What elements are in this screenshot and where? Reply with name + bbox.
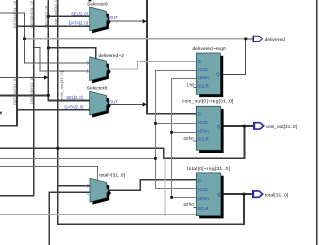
multiplexer total~[31..0] bbox=[87, 173, 126, 205]
wire: delivered~2 select from B3 dot y=47.9 over to x=95.7 down into mux top bbox=[48, 48, 95, 60]
wire: Selector9 OUT y=21.2 into bus B5 with arrowhead bbox=[108, 19, 147, 23]
svg-text:OUT: OUT bbox=[109, 15, 118, 20]
svg-text:delivered: delivered bbox=[265, 37, 286, 43]
svg-text:SCLR: SCLR bbox=[197, 137, 208, 142]
bus label vertical B4 lower right side bbox=[59, 71, 64, 99]
svg-text:DATA[a][31..0]: DATA[a][31..0] bbox=[12, 77, 17, 105]
svg-text:coin_out[31..0]: coin_out[31..0] bbox=[53, 0, 58, 27]
wire: SCLR stub coin reg bbox=[193, 140, 196, 142]
wire: total~ mux lower input y=192.2 from vertical x=49.3 going off bottom bbox=[49, 192, 90, 245]
svg-text:OUT: OUT bbox=[109, 100, 118, 105]
svg-text:SEL[2..0]: SEL[2..0] bbox=[71, 12, 88, 17]
node: junction B3/SEL9 bbox=[47, 15, 50, 18]
bus label vertical B1 top bbox=[12, 1, 17, 29]
svg-text:SCLR: SCLR bbox=[197, 84, 208, 89]
wire: Selector8 DATA bus y=109.7 from left edge bbox=[17, 109, 91, 111]
multiplexer delivered~2 bbox=[87, 53, 125, 83]
wire: Selector9 DATA bus y=26.1 from B1 bbox=[17, 25, 91, 27]
wire: SCLR stub delivered reg bbox=[193, 87, 196, 89]
node: junction B3 left branch bbox=[47, 94, 50, 97]
node: junction ena total bbox=[170, 196, 173, 199]
svg-text:>CLK: >CLK bbox=[197, 67, 208, 72]
svg-text:32'h0: 32'h0 bbox=[183, 202, 194, 207]
node: junction delivered feedback x=24.4 bbox=[23, 37, 26, 40]
output port coin_out[31..0] bbox=[253, 122, 298, 130]
wire: coin_out feedback thick y=148.6 stepping down to y=158.3 right to x=244.4 up to coin port dot bbox=[0, 126, 244, 158]
bus label vertical B3 top bbox=[44, 6, 49, 29]
svg-text:◇ENA: ◇ENA bbox=[197, 196, 209, 201]
wire: total~ mux output thick to total reg D bbox=[108, 180, 197, 190]
cropped text fragment at left edge bbox=[0, 112, 2, 115]
wire: coin reg Q to port y=126 bbox=[221, 125, 254, 127]
register delivered~reg0 bbox=[186, 46, 226, 97]
output port delivered bbox=[253, 36, 286, 43]
wire: delivered feedback top-left y=12.9 via vertical x=24.4 to delivered~2 input0 y=62.8 bbox=[0, 13, 91, 63]
wire: Selector8 OUT y=104.4 into bus B5 with arrowhead bbox=[108, 102, 147, 106]
svg-text:coin_out[0]~reg[31..0]: coin_out[0]~reg[31..0] bbox=[182, 99, 234, 105]
multiplexer Selector8 bbox=[64, 86, 118, 118]
node: junction delivered port bbox=[244, 38, 247, 41]
wire: SCLR stub total reg bbox=[193, 206, 196, 208]
svg-text:delivered~reg0: delivered~reg0 bbox=[193, 46, 226, 52]
wire: delivered~2 output gray to delivered reg D bbox=[108, 62, 197, 69]
wire: total reg Q to port and feedback down bbox=[221, 194, 253, 224]
output port total[31..0] bbox=[252, 190, 289, 198]
svg-text:DATA[b][31..0]: DATA[b][31..0] bbox=[29, 76, 34, 104]
svg-text:total~[31..0]: total~[31..0] bbox=[99, 173, 125, 179]
multiplexer Selector9 bbox=[69, 2, 118, 34]
svg-text:D: D bbox=[198, 112, 201, 117]
svg-text:DATA[a][31..0]: DATA[a][31..0] bbox=[12, 1, 17, 29]
wire: right edge vertical x=316.8 bbox=[316, 0, 318, 245]
svg-text:total[31..0]: total[31..0] bbox=[265, 192, 289, 198]
svg-text:D: D bbox=[198, 59, 201, 64]
wire: bus B1 vertical x=17 with corner left at y=126.4 bbox=[0, 0, 17, 126]
svg-text:◇ENA: ◇ENA bbox=[197, 75, 209, 80]
wire: bus B2 vertical x=33.8 with corner left at y=196.4 bbox=[0, 0, 34, 196]
wire: bus B3 vertical x=48.3 ending corner right into Selector8 SEL bbox=[48, 0, 90, 100]
node: junction B3/delivered~2 sel bbox=[47, 47, 50, 50]
svg-text:coin_out[31..0]: coin_out[31..0] bbox=[59, 71, 64, 99]
bus label vertical B2 lower bbox=[29, 76, 34, 104]
cropped mark at top edge bbox=[89, 0, 92, 1]
wire: bus B4 vertical x=57.8 down to total feedback corner bbox=[58, 0, 245, 224]
svg-text:Selector9: Selector9 bbox=[87, 2, 108, 8]
wire: thick branch left from B3 at y=95.4 bbox=[0, 94, 48, 96]
node: junction ena coin bbox=[170, 131, 173, 134]
wire: clock net gray trunk y=158.3 and vertical x=155.4 with branches to CLK pins bbox=[0, 70, 197, 188]
bus label vertical B2 top bbox=[29, 1, 34, 29]
wire: thin wire y=77.4 from left edge into B3 with arrowhead bbox=[0, 75, 48, 79]
register coin_out[0]~reg[31..0] bbox=[182, 99, 234, 153]
node: junction coin_out port bbox=[243, 125, 246, 128]
wire: gray line y=214.3 under total reg bbox=[0, 214, 199, 216]
wire: enable net vertical x=171.5 with branches to ENA pins bbox=[172, 79, 197, 198]
svg-text:SEL[a][2..0]: SEL[a][2..0] bbox=[44, 6, 49, 29]
svg-text:DATA[2..0]: DATA[2..0] bbox=[69, 21, 88, 26]
wire: net delivered gray y=38.7 from dot x=24.4 to port dot bbox=[24, 38, 245, 40]
svg-text:DATA[2..0]: DATA[2..0] bbox=[64, 105, 83, 110]
wire: gray vertical x=164.8 bbox=[164, 158, 166, 216]
svg-text:delivered~2: delivered~2 bbox=[98, 53, 124, 59]
node: junction B4 on coin feedback line bbox=[57, 147, 60, 150]
wire: bus B5 vertical x=146.9 corner right into coin_out reg D bbox=[147, 0, 197, 114]
wire: delivered~2 input1 from B2 y=47.4 via x=40 down to y=70.9 bbox=[34, 47, 91, 71]
svg-text:total[0]~reg[31..0]: total[0]~reg[31..0] bbox=[187, 166, 231, 172]
svg-text:D: D bbox=[198, 178, 201, 183]
register total[0]~reg[31..0] bbox=[183, 166, 230, 218]
bus label vertical B1 lower bbox=[12, 77, 17, 105]
svg-text:◇ENA: ◇ENA bbox=[197, 129, 209, 134]
wire: branch B4 to total-mux upper input y=185.6 bbox=[58, 185, 91, 187]
svg-text:SEL[2..0]: SEL[2..0] bbox=[66, 95, 83, 100]
svg-text:DATA[b][31..0]: DATA[b][31..0] bbox=[29, 1, 34, 29]
node: junction clk coin bbox=[154, 122, 157, 125]
svg-text:Selector8: Selector8 bbox=[87, 86, 108, 92]
svg-text:coin_out[31..0]: coin_out[31..0] bbox=[266, 124, 298, 130]
bus label vertical B4 top bbox=[53, 0, 58, 27]
svg-text:SCLR: SCLR bbox=[197, 206, 208, 211]
wire: total~ select wire y=166.4 stepping down into mux top bbox=[0, 166, 97, 180]
wire: Selector9 SEL bus y=16.2 from B3 bbox=[48, 15, 90, 17]
node: junction clk trunk bbox=[154, 157, 157, 160]
wire: delivered reg Q up to port y=39 bbox=[220, 39, 253, 75]
node: junction total port bbox=[243, 193, 246, 196]
svg-text:>CLK: >CLK bbox=[197, 187, 208, 192]
svg-text:1'h0: 1'h0 bbox=[186, 82, 195, 87]
svg-text:32'h0: 32'h0 bbox=[183, 136, 194, 141]
svg-text:>CLK: >CLK bbox=[197, 120, 208, 125]
